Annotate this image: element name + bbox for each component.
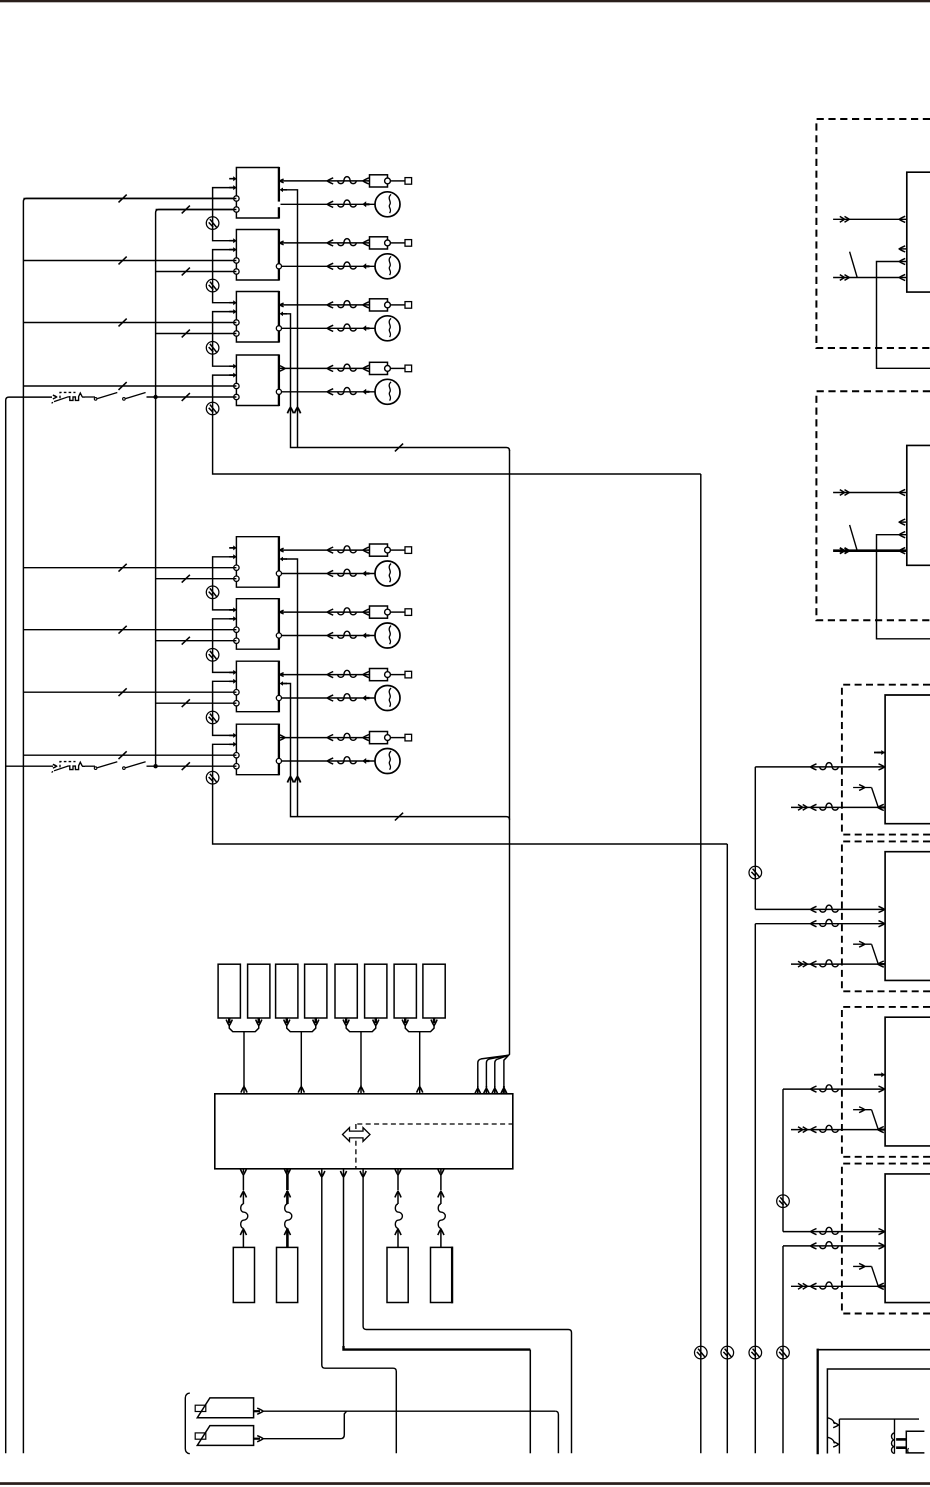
switch blade U2 <box>850 525 858 551</box>
wire: trunk branch <box>486 1055 508 1087</box>
relay block RA1 <box>236 168 279 219</box>
horn H1 <box>197 1398 253 1418</box>
wire: RB3 output 2 to bulb <box>282 697 376 699</box>
wire: bank A chain output down <box>700 474 702 1453</box>
wire: D4 coil feed 2 <box>783 1245 885 1247</box>
RA1 pin arrow in 2 <box>229 185 237 190</box>
switch blade D3 <box>853 1109 872 1111</box>
wire: U2 input 1 <box>833 492 907 494</box>
wire: RB2 terminal1 from bus <box>23 629 236 631</box>
door unit D4 <box>885 1174 930 1303</box>
dashed enclosure D3 <box>842 1007 930 1157</box>
wire: RA1 output 1 to fuse <box>280 180 370 182</box>
RA2 bulb <box>375 254 400 279</box>
wire: RA3 output 1 to fuse <box>280 304 370 306</box>
RB4 pin arrow in 1 <box>229 733 237 738</box>
wire: RA4 terminal1 from bus <box>23 385 236 387</box>
wire: J/B output 4 (bold) <box>340 1171 346 1177</box>
page footer bar <box>0 1482 930 1485</box>
dashed enclosure U1 <box>816 119 930 348</box>
J/B internal dashed link <box>357 1123 513 1125</box>
circuit breaker CB-RB <box>6 765 53 767</box>
wire: RB block3 coil feed chain <box>213 681 237 735</box>
RB2 fuse holder <box>370 606 388 618</box>
RB3 bulb <box>375 686 400 711</box>
RA3 output terminal circle <box>276 326 281 331</box>
wire: L3 feed <box>397 1169 399 1173</box>
noise filter column 3 <box>749 1346 762 1359</box>
RB2 pin arrow in 1 <box>229 607 237 612</box>
RA2 terminal circle 1 <box>234 258 239 263</box>
wire: U1 input 2 with switch <box>833 277 907 279</box>
wire: trunk branch <box>495 1055 509 1087</box>
wire: RA2 terminal1 from bus <box>23 260 236 262</box>
wire: RB1 output 2 to bulb <box>282 573 376 575</box>
fuse F7 <box>394 964 416 1018</box>
wire: RB1 status feedback <box>280 557 288 562</box>
wire: left bus 2 <box>156 210 237 767</box>
U1 pin stub <box>899 248 907 250</box>
noise filter RA-1 <box>206 217 219 230</box>
wire: fuse pair 4 joined feed <box>404 1018 407 1023</box>
RB2 bulb <box>375 623 400 648</box>
switch contact CB-RA-2 <box>123 398 126 401</box>
wire: RA2 output 1 to fuse <box>280 242 370 244</box>
wire: L2 feed <box>286 1169 289 1173</box>
wire: D2 feed down <box>754 924 756 1454</box>
relay block RB3 <box>236 661 279 712</box>
fuse F2 <box>248 964 270 1018</box>
circuit breaker CB-RA <box>53 395 57 399</box>
wire: RB3 status feedback <box>280 681 288 686</box>
fuse F5 <box>335 964 357 1018</box>
switch blade D2 <box>853 943 872 945</box>
D3 pin stub <box>874 1074 885 1076</box>
wire: RA1 status feedback <box>280 188 288 193</box>
RA1 terminal circle 1 <box>234 196 239 201</box>
RB4 terminal circle 2 <box>234 764 239 769</box>
RB3 terminal circle 1 <box>234 690 239 695</box>
noise filter RA-4 <box>206 402 219 415</box>
RB1 output terminal circle <box>276 571 281 576</box>
RA3 pin arrow in 1 <box>229 300 237 305</box>
RA2 output terminal circle <box>276 264 281 269</box>
RB1 bulb <box>375 561 400 586</box>
speaker core bars <box>896 1438 906 1441</box>
RB3 fuse holder <box>370 669 388 681</box>
speaker coil <box>892 1433 895 1453</box>
noise filter RA-3 <box>206 342 219 355</box>
wire: RB4 output 1 to fuse <box>280 737 370 739</box>
noise filter column 4 <box>777 1346 790 1359</box>
wire: D4 switch input <box>791 1285 879 1287</box>
horn H2 <box>197 1426 253 1446</box>
wire: RA2 output 2 to bulb <box>282 265 376 267</box>
connector arrow 2 <box>827 1437 834 1443</box>
switch contact CB-RB-2 <box>123 767 126 770</box>
RA4 socket terminal <box>391 367 406 369</box>
wire: RB block4 chain to output bus <box>213 744 728 844</box>
connector arrow 1 <box>827 1418 834 1424</box>
speaker box <box>906 1431 924 1453</box>
noise filter RA-2 <box>206 279 219 292</box>
page header bar <box>0 0 930 2</box>
wire: RA2 terminal2 from bus2 <box>156 271 237 273</box>
wire: RA3 terminal2 from bus2 <box>156 333 237 335</box>
flow arrows below RA4 <box>287 407 293 413</box>
RA2 terminal circle 2 <box>234 269 239 274</box>
junction dot bus2/CB-RA <box>153 395 157 399</box>
switch contact CB-RB-1 <box>94 767 97 770</box>
wire: RB3 terminal1 from bus <box>23 691 236 693</box>
amplifier unit housing <box>817 1349 819 1455</box>
switch blade D4 <box>853 1265 872 1267</box>
RA2 pin arrow in 2 <box>229 247 237 252</box>
wire: RB2 output 1 to fuse <box>280 611 370 613</box>
wire: U1 loop output <box>877 262 930 369</box>
wire: D2 coil feed 1 <box>755 908 885 910</box>
wire: speaker return <box>907 1448 910 1453</box>
noise filter D3/D4 <box>777 1195 790 1208</box>
RB4 output terminal circle <box>276 758 281 763</box>
noise filter RB-1 <box>206 586 219 599</box>
wire: far-left feed bus <box>6 397 52 1453</box>
wire: fuse pair 3 joined feed <box>345 1018 348 1023</box>
switch blade U1 <box>850 252 858 278</box>
dashed enclosure U2 <box>816 391 930 620</box>
wire: RA3 status feedback <box>280 312 288 317</box>
junction dot bus2/CB-RB <box>153 764 157 768</box>
wire: D3 coil feed <box>783 1088 885 1090</box>
amplifier inner box <box>827 1369 930 1454</box>
RA4 terminal circle 1 <box>234 383 239 388</box>
wire: RA1 terminal2 from bus2 <box>156 209 237 211</box>
fuse F8 <box>423 964 445 1018</box>
RB3 pin arrow in 2 <box>229 679 237 684</box>
RA2 fuse holder <box>370 237 388 249</box>
load unit L3 <box>387 1247 408 1302</box>
RB1 socket terminal <box>391 549 406 551</box>
wire: trunk from relay banks to junction box <box>504 450 510 1087</box>
wire: RA3 output 2 to bulb <box>282 327 376 329</box>
RB3 socket terminal <box>391 674 406 676</box>
wire: RA block2 coil feed chain <box>213 250 237 303</box>
noise filter D1/D2 <box>749 866 762 879</box>
RB2 terminal circle 1 <box>234 627 239 632</box>
flow arrows below RB4 <box>287 777 293 783</box>
wire: D1 coil feed <box>755 766 885 768</box>
wire: amplifier internal bus <box>838 1425 840 1454</box>
RA1 bulb <box>375 192 400 217</box>
wire: L1 feed <box>242 1169 244 1173</box>
wire: U1 input 1 <box>833 218 907 220</box>
RA2 pin arrow in 1 <box>229 238 237 243</box>
wire: horn common down <box>555 1411 558 1453</box>
wire: L4 feed <box>440 1169 442 1173</box>
wire: D1 switch input <box>791 806 879 808</box>
relay block RB2 <box>236 599 279 650</box>
RA4 terminal circle 2 <box>234 394 239 399</box>
wire: RB1 terminal2 from bus2 <box>156 578 237 580</box>
J/B bidirectional arrow symbol <box>343 1128 371 1142</box>
switch contact CB-RA-1 <box>94 398 97 401</box>
wire: RB2 output 2 to bulb <box>282 635 376 637</box>
RA4 fuse holder <box>370 362 388 374</box>
relay block RA4 <box>236 355 279 406</box>
load unit L4 <box>431 1247 453 1302</box>
RB4 terminal circle 1 <box>234 753 239 758</box>
RB4 fuse holder <box>370 732 388 744</box>
RA4 pin arrow in 2 <box>229 373 237 378</box>
RB2 terminal circle 2 <box>234 638 239 643</box>
RA4 pin arrow in 1 <box>229 364 237 369</box>
wire: horn H2 output <box>254 1438 260 1440</box>
RB2 pin arrow in 2 <box>229 616 237 621</box>
wire: horn H1 output <box>254 1410 260 1412</box>
RA3 bulb <box>375 316 400 341</box>
junction box J/B <box>215 1094 513 1169</box>
load unit L1 <box>233 1247 254 1302</box>
wire: fuse pair 2 joined feed <box>286 1018 289 1023</box>
door unit D1 <box>885 695 930 824</box>
door unit D3 <box>885 1017 930 1146</box>
noise filter column 2 <box>721 1346 734 1359</box>
wire: RA4 output 1 to fuse <box>280 367 370 369</box>
RB3 output terminal circle <box>276 695 281 700</box>
wire: RA1 output 2 to bulb <box>281 203 376 205</box>
control unit U2 <box>907 445 930 565</box>
wire: RB block1 coil feed chain <box>213 557 237 610</box>
wire: RB4 terminal1 from bus <box>23 754 236 756</box>
wire: fuse pair 1 joined feed <box>228 1018 231 1023</box>
wire: RA block1 coil feed chain <box>213 188 237 241</box>
RB1 terminal circle 2 <box>234 576 239 581</box>
wire: D2 coil feed 2 <box>755 923 885 925</box>
RA3 fuse holder <box>370 299 388 311</box>
RA4 output terminal circle <box>276 389 281 394</box>
RB4 socket terminal <box>391 737 406 739</box>
wire: J/B output 5 <box>360 1171 366 1177</box>
dashed enclosure D1 <box>842 685 930 835</box>
U2 pin stub <box>899 521 907 523</box>
wire: RA1 terminal1 from bus <box>23 198 236 200</box>
wire: CB-RA to relay terminal <box>85 396 95 398</box>
RA3 terminal circle 1 <box>234 320 239 325</box>
wire: D4 feed down <box>782 1246 784 1453</box>
relay block RA3 <box>236 292 279 343</box>
RA3 terminal circle 2 <box>234 331 239 336</box>
fuse F1 <box>218 964 240 1018</box>
bracket (horn group) <box>185 1393 190 1454</box>
RA2 socket terminal <box>391 242 406 244</box>
wire: D3 switch input <box>791 1129 879 1131</box>
load unit L2 <box>277 1247 298 1302</box>
RA1 socket terminal <box>391 180 406 182</box>
wire: speaker branch <box>894 1419 896 1432</box>
relay block RA2 <box>236 230 279 281</box>
wire: bank B chain output down <box>726 844 728 1453</box>
wire: D1-D2 link <box>754 767 756 910</box>
wire: J/B output 3 <box>319 1171 325 1177</box>
dashed enclosure D2 <box>842 841 930 991</box>
noise filter RB-4 <box>206 771 219 784</box>
RB2 output terminal circle <box>276 633 281 638</box>
wire: RA3 terminal1 from bus <box>23 322 236 324</box>
relay block RB4 <box>236 724 279 775</box>
switch blade D1 <box>853 787 872 789</box>
RB1 pin arrow in 1 <box>229 545 237 550</box>
wire: RB1 terminal1 from bus <box>23 567 236 569</box>
wire: RB2 terminal2 from bus2 <box>156 640 237 642</box>
wire: left bus 1 (B+) <box>23 198 236 1453</box>
wire: U2 loop output <box>877 535 930 639</box>
wire: RB1 output 1 to fuse <box>280 549 370 551</box>
wire: RA4 output 2 to bulb <box>282 391 376 393</box>
wire: RB3 terminal2 from bus2 <box>156 702 237 704</box>
RA4 bulb <box>375 379 400 404</box>
wire: D2 switch input <box>791 963 879 965</box>
RA1 pin arrow in 1 <box>229 176 237 181</box>
RA3 socket terminal <box>391 304 406 306</box>
RB2 socket terminal <box>391 611 406 613</box>
fuse F3 <box>276 964 298 1018</box>
door unit D2 <box>885 852 930 981</box>
RB3 terminal circle 2 <box>234 701 239 706</box>
RA1 terminal circle 2 <box>234 207 239 212</box>
wire: trunk branch <box>478 1055 509 1087</box>
dashed enclosure D4 <box>842 1164 930 1314</box>
wire: RA block3 coil feed chain <box>213 312 237 367</box>
RB1 fuse holder <box>370 544 388 556</box>
relay block RB1 <box>236 537 279 588</box>
noise filter RB-2 <box>206 649 219 662</box>
noise filter RB-3 <box>206 711 219 724</box>
RB3 pin arrow in 1 <box>229 670 237 675</box>
wire: D3-D4 link <box>782 1089 784 1232</box>
wire: D4 coil feed 1 <box>783 1231 885 1233</box>
RB4 pin arrow in 2 <box>229 742 237 747</box>
RA1 fuse holder <box>370 175 388 187</box>
fuse F4 <box>305 964 327 1018</box>
RA3 pin arrow in 2 <box>229 309 237 314</box>
wire: RB4 output 2 to bulb <box>282 760 376 762</box>
wire: U2 input 2 with switch <box>833 549 907 552</box>
RB1 pin arrow in 2 <box>229 554 237 559</box>
RB4 bulb <box>375 749 400 774</box>
RB1 terminal circle 1 <box>234 565 239 570</box>
wire: RB block2 coil feed chain <box>213 619 237 673</box>
wire: CB-RB to relay terminal <box>85 765 95 767</box>
wire: RA block4 chain to output bus <box>213 375 701 474</box>
D1 pin stub <box>874 752 885 754</box>
noise filter column 1 <box>695 1346 708 1359</box>
fuse F6 <box>365 964 387 1018</box>
control unit U1 <box>907 172 930 292</box>
wire: RB3 output 1 to fuse <box>280 674 370 676</box>
